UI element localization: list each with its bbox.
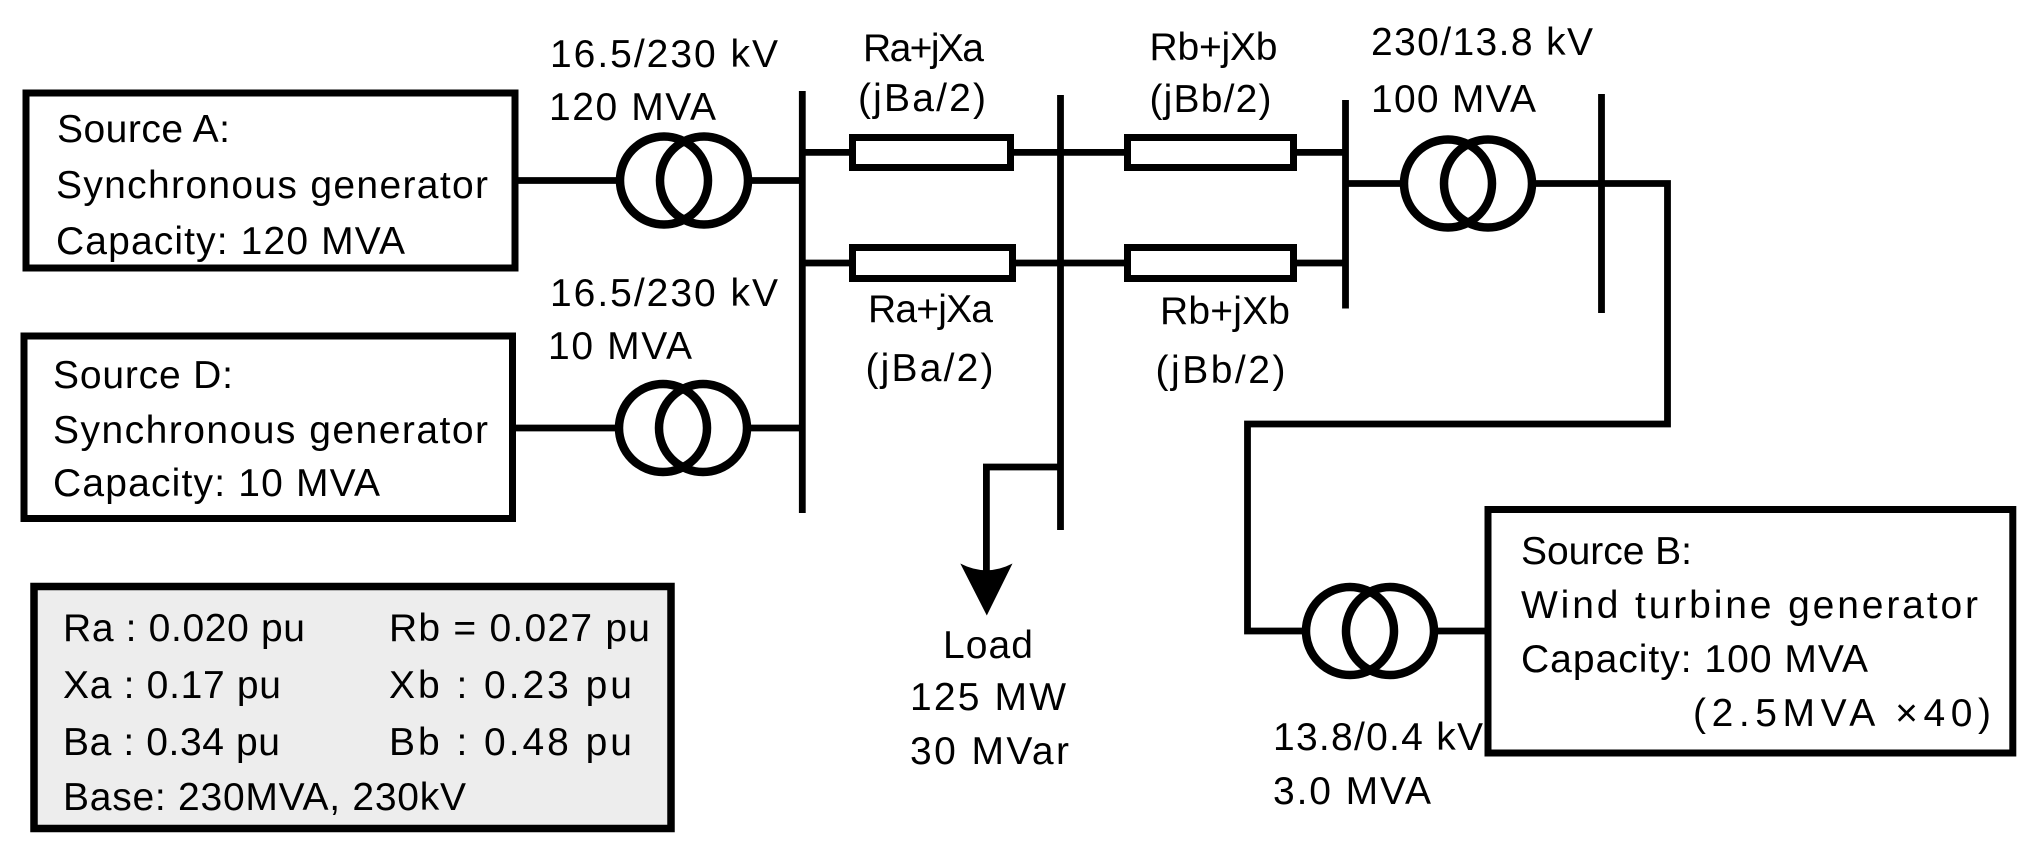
svg-text:Capacity: 100 MVA: Capacity: 100 MVA	[1521, 638, 1868, 681]
svg-text:10 MVA: 10 MVA	[548, 325, 692, 368]
svg-text:100 MVA: 100 MVA	[1371, 78, 1536, 121]
svg-text:125 MW: 125 MW	[910, 676, 1066, 719]
svg-text:13.8/0.4 kV: 13.8/0.4 kV	[1273, 716, 1483, 759]
svg-text:Ra+jXa: Ra+jXa	[863, 27, 984, 70]
svg-text:16.5/230 kV: 16.5/230 kV	[550, 33, 778, 76]
svg-text:Ba : 0.34 pu: Ba : 0.34 pu	[63, 721, 280, 764]
svg-text:3.0 MVA: 3.0 MVA	[1273, 770, 1431, 813]
svg-text:Rb+jXb: Rb+jXb	[1150, 26, 1278, 69]
svg-text:(jBa/2): (jBa/2)	[866, 347, 994, 390]
svg-text:230/13.8 kV: 230/13.8 kV	[1371, 21, 1593, 64]
svg-text:Base: 230MVA, 230kV: Base: 230MVA, 230kV	[63, 776, 466, 819]
svg-text:Synchronous generator: Synchronous generator	[53, 409, 488, 452]
svg-text:Capacity: 120 MVA: Capacity: 120 MVA	[56, 220, 405, 263]
svg-text:Load: Load	[943, 624, 1033, 667]
svg-text:120 MVA: 120 MVA	[549, 86, 716, 129]
svg-text:16.5/230 kV: 16.5/230 kV	[550, 272, 778, 315]
svg-text:Ra : 0.020 pu: Ra : 0.020 pu	[63, 607, 305, 650]
svg-text:Wind turbine generator: Wind turbine generator	[1521, 584, 1978, 627]
svg-text:Ra+jXa: Ra+jXa	[868, 288, 993, 331]
svg-text:Bb : 0.48 pu: Bb : 0.48 pu	[389, 721, 632, 764]
svg-text:Source B:: Source B:	[1521, 530, 1692, 573]
svg-text:(jBb/2): (jBb/2)	[1150, 78, 1272, 121]
svg-text:Rb+jXb: Rb+jXb	[1160, 290, 1290, 333]
svg-text:Source D:: Source D:	[53, 354, 233, 397]
svg-text:Synchronous generator: Synchronous generator	[56, 164, 488, 207]
svg-text:(jBb/2): (jBb/2)	[1156, 349, 1286, 392]
svg-text:(jBa/2): (jBa/2)	[858, 77, 986, 120]
svg-text:Xa : 0.17 pu: Xa : 0.17 pu	[63, 664, 281, 707]
svg-text:Rb = 0.027 pu: Rb = 0.027 pu	[389, 607, 650, 650]
svg-text:Source A:: Source A:	[57, 108, 230, 151]
svg-text:Xb : 0.23 pu: Xb : 0.23 pu	[389, 664, 632, 707]
svg-text:Capacity: 10 MVA: Capacity: 10 MVA	[53, 462, 380, 505]
svg-text:30 MVar: 30 MVar	[910, 730, 1069, 773]
